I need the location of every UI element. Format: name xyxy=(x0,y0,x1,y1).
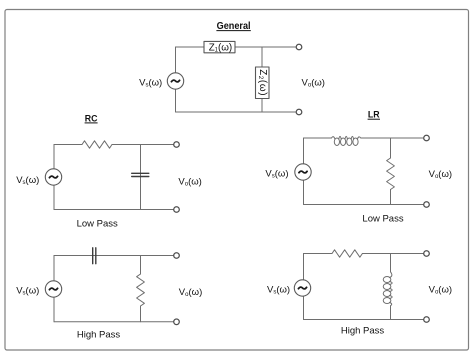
svg-text:LR: LR xyxy=(368,110,380,120)
svg-text:RC: RC xyxy=(85,114,98,124)
svg-text:Vs(ω): Vs(ω) xyxy=(265,169,288,180)
svg-text:Vs(ω): Vs(ω) xyxy=(267,285,290,296)
svg-text:Vs(ω): Vs(ω) xyxy=(16,286,39,297)
svg-text:Vs(ω): Vs(ω) xyxy=(16,175,39,186)
svg-text:Low Pass: Low Pass xyxy=(77,218,118,229)
svg-text:Z1(ω): Z1(ω) xyxy=(209,43,233,54)
svg-text:Vo(ω): Vo(ω) xyxy=(302,78,325,89)
svg-text:Vo(ω): Vo(ω) xyxy=(429,169,452,180)
svg-text:High Pass: High Pass xyxy=(77,330,121,341)
svg-text:Vo(ω): Vo(ω) xyxy=(179,287,202,298)
svg-text:Vs(ω): Vs(ω) xyxy=(139,77,162,88)
svg-text:Low Pass: Low Pass xyxy=(362,214,403,225)
svg-text:Z2(ω): Z2(ω) xyxy=(257,69,268,96)
svg-text:Vo(ω): Vo(ω) xyxy=(178,176,201,187)
svg-text:Vo(ω): Vo(ω) xyxy=(429,285,452,296)
svg-text:High Pass: High Pass xyxy=(341,326,385,337)
